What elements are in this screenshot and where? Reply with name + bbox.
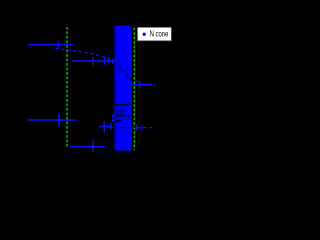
blue point vertical error bar x=110.8 [110,123,112,130]
data point C horizontal error bar [28,119,75,121]
data point D horizontal error bar [70,146,105,148]
data point E vertical error bar [139,81,141,88]
blue point error bar at band edge x=113.2 [112,114,114,121]
blue cross point vertical bar [103,121,105,132]
small point vertical error bar x=108.6 [108,58,110,64]
dark dashed fit curve crossing band diagonally [115,62,132,80]
blue small error bar x=136.8 [136,124,138,130]
dark thick mark y=121.2 [115,120,119,122]
blue dash at band exit [135,81,138,82]
dark horizontal error bar on band y=120.8 [115,120,123,122]
dark horizontal error bar on band y=115.7 [115,115,128,117]
svg-text:N cone: N cone [150,30,169,39]
legend marker dot [143,33,146,36]
data point B horizontal error bar [72,60,114,62]
data point A vertical error bar [58,42,60,48]
data point A marker [57,43,60,46]
data point E horizontal error bar [131,84,152,86]
data point D marker [92,145,95,148]
dashed curve tail after E [153,84,156,86]
data point A horizontal error bar [28,44,74,46]
dark point error bar on band x=117.3 [116,109,118,117]
blue dashes entering band y=127.4 [111,126,115,128]
data point C marker [57,118,61,122]
data point B vertical error bar [92,57,94,65]
blue band (filled vertical region) [115,26,132,151]
dark point error bar on band x=120.3 [119,109,121,117]
green dashed vertical line (right boundary) [133,25,135,150]
blue stub of y=120.8 bar outside band [112,120,115,122]
blue dashed fit curve (left section) [56,48,114,61]
dark dashed line on band y=127.6 [115,127,132,129]
legend box [137,27,171,41]
small point vertical error bar x=112.6 [112,59,114,64]
small point vertical error bar x=104.7 [104,57,106,65]
blue stub of y=115.7 bar outside band [112,115,115,117]
green dashed vertical line (left boundary) [66,25,68,149]
dark horizontal line on band y=104.6 [115,104,132,106]
blue dashed tail right of band y=127.6 [132,127,152,129]
blue small error bar x=142.2 [141,125,143,130]
blue cross point horizontal bar [99,126,110,128]
dark point error bar on band x=123.2 [122,109,124,117]
data point D vertical error bar [92,141,94,153]
dark thick mark y=115.8 [126,115,129,117]
data point C vertical error bar [58,113,60,126]
